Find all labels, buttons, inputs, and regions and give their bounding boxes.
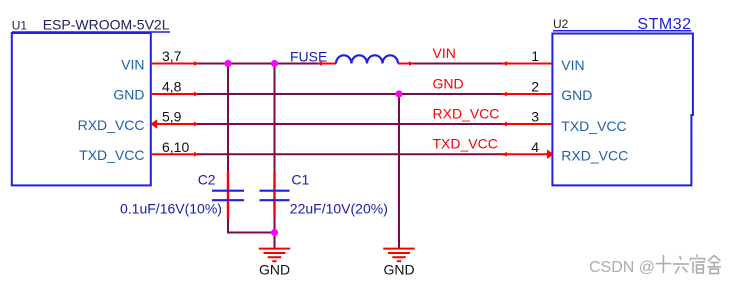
svg-text:CSDN @: CSDN @ [589,259,655,276]
svg-text:GND: GND [383,261,414,277]
svg-text:GND: GND [113,87,144,103]
svg-text:RXD_VCC: RXD_VCC [561,148,628,164]
svg-text:FUSE: FUSE [290,49,327,65]
svg-text:4,8: 4,8 [162,78,182,94]
svg-text:1: 1 [531,48,539,64]
svg-text:C2: C2 [198,171,216,187]
svg-text:0.1uF/16V(10%): 0.1uF/16V(10%) [120,200,222,216]
svg-text:3,7: 3,7 [162,48,182,64]
svg-text:U2: U2 [553,17,569,31]
svg-text:2: 2 [531,78,539,94]
svg-text:GND: GND [561,87,592,103]
svg-text:TXD_VCC: TXD_VCC [79,147,144,163]
svg-text:C1: C1 [291,171,309,187]
svg-text:5,9: 5,9 [162,109,182,125]
svg-text:TXD_VCC: TXD_VCC [561,118,626,134]
svg-text:4: 4 [531,139,539,155]
svg-text:3: 3 [531,109,539,125]
svg-text:U1: U1 [12,18,28,32]
svg-text:RXD_VCC: RXD_VCC [78,117,145,133]
svg-text:GND: GND [433,75,464,91]
svg-text:VIN: VIN [561,57,584,73]
svg-text:VIN: VIN [433,45,456,61]
svg-text:ESP-WROOM-5V2L: ESP-WROOM-5V2L [43,16,170,32]
svg-text:STM32: STM32 [637,16,691,33]
svg-text:TXD_VCC: TXD_VCC [433,136,498,152]
svg-text:GND: GND [259,261,290,277]
svg-text:6,10: 6,10 [162,139,189,155]
svg-text:RXD_VCC: RXD_VCC [433,105,500,121]
svg-text:VIN: VIN [121,57,144,73]
svg-text:22uF/10V(20%): 22uF/10V(20%) [290,200,388,216]
